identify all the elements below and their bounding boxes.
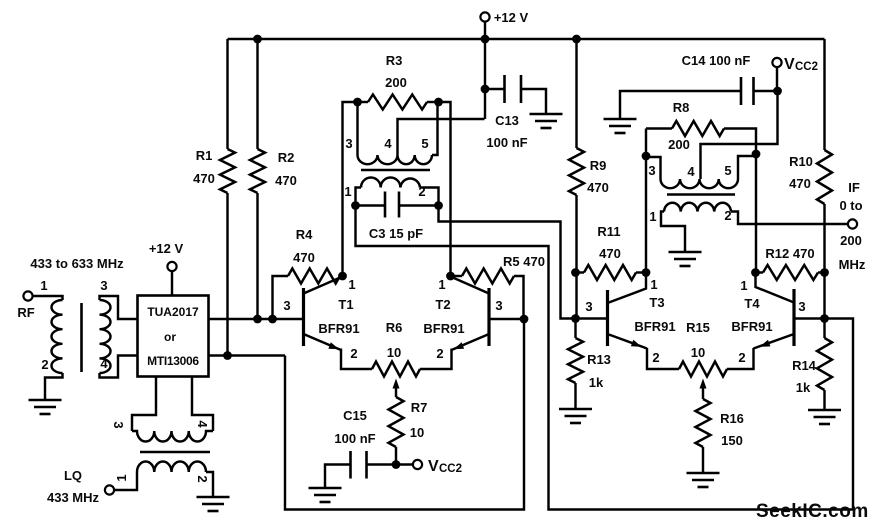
svg-text:R4: R4: [296, 227, 313, 242]
svg-text:SeekIC.com: SeekIC.com: [756, 501, 869, 522]
svg-text:C14 100 nF: C14 100 nF: [682, 53, 751, 68]
wire VCC2 to TR4 centre tap: [701, 91, 778, 179]
svg-text:3: 3: [111, 421, 126, 428]
+12V terminal: [480, 12, 489, 21]
svg-text:200: 200: [840, 233, 862, 248]
transistor T2 BFR91: [487, 288, 490, 346]
wire TR2 secondary left to C3: [356, 188, 362, 206]
svg-text:C3 15 pF: C3 15 pF: [369, 226, 423, 241]
node T3 collector junction: [642, 268, 651, 277]
svg-text:470: 470: [587, 180, 609, 195]
wire RF to TR1 primary: [33, 296, 63, 300]
svg-text:CC2: CC2: [795, 61, 818, 73]
resistor R6: [372, 362, 420, 377]
svg-text:1: 1: [740, 278, 747, 293]
svg-text:2: 2: [724, 208, 731, 223]
svg-text:4: 4: [195, 420, 210, 428]
wire TR3 pin2 to ground: [206, 472, 213, 497]
node T2 base junction: [520, 315, 529, 324]
svg-text:LQ: LQ: [64, 468, 82, 483]
svg-text:BFR91: BFR91: [423, 321, 464, 336]
node T2 collector junction: [446, 272, 455, 281]
wire TR2 secondary right to C3: [420, 188, 439, 206]
transistor T3 BFR91: [606, 290, 609, 346]
svg-text:C15: C15: [343, 408, 367, 423]
svg-text:2: 2: [652, 350, 659, 365]
svg-text:BFR91: BFR91: [731, 319, 772, 334]
wire R2 to T1 base bus: [256, 193, 258, 319]
svg-text:T4: T4: [744, 296, 760, 311]
ground R16: [687, 473, 720, 487]
svg-text:2: 2: [418, 184, 425, 199]
transformer TR1 core: [80, 303, 83, 372]
svg-text:0 to: 0 to: [839, 198, 862, 213]
wire R1 to LO bus: [226, 193, 228, 356]
resistor R16: [696, 399, 711, 447]
svg-text:T3: T3: [649, 295, 664, 310]
svg-text:1: 1: [348, 277, 355, 292]
svg-text:1: 1: [344, 184, 351, 199]
svg-text:2: 2: [195, 475, 210, 482]
ground TR4: [669, 252, 702, 266]
ground TR3: [197, 497, 230, 511]
ground TR1 primary: [29, 400, 62, 414]
transformer TR4 primary pin3 stub: [646, 157, 661, 179]
svg-text:MTI13006: MTI13006: [147, 354, 199, 368]
node junction rail/+12V: [481, 35, 490, 44]
wiper arrow R15: [700, 379, 707, 389]
svg-text:R14: R14: [792, 358, 817, 373]
wire U1 lower output bus: [209, 354, 286, 356]
wire +12V to C13: [484, 39, 486, 119]
wire R10 column: [823, 39, 825, 150]
VCC2 terminal bottom: [413, 460, 422, 469]
svg-text:10: 10: [691, 345, 705, 360]
svg-text:433 to 633 MHz: 433 to 633 MHz: [30, 256, 124, 271]
svg-text:R12 470: R12 470: [765, 246, 814, 261]
svg-text:C13: C13: [495, 113, 519, 128]
wire LQ terminal to TR3: [114, 472, 137, 490]
svg-text:V: V: [428, 458, 439, 475]
VCC2 terminal top: [772, 58, 781, 67]
svg-text:4: 4: [384, 136, 392, 151]
svg-text:3: 3: [283, 298, 290, 313]
ground C15: [309, 488, 342, 502]
svg-text:MHz: MHz: [839, 257, 866, 272]
wire TR1 secondary pin4 to U1: [100, 356, 138, 378]
svg-text:R7: R7: [411, 400, 428, 415]
node junction rail/R2: [253, 35, 262, 44]
svg-text:200: 200: [385, 75, 407, 90]
svg-text:T1: T1: [338, 297, 353, 312]
wire C3 left to bottom bus to T4 base: [356, 206, 854, 510]
svg-text:2: 2: [41, 357, 48, 372]
capacitor C13: [485, 88, 505, 90]
svg-text:R2: R2: [278, 150, 295, 165]
svg-text:150: 150: [721, 433, 743, 448]
node junction R4/base bus: [268, 315, 277, 324]
transformer TR2 secondary winding: [361, 177, 420, 187]
node junction R12 right: [820, 268, 829, 277]
wire C3 right to T3 base: [439, 206, 576, 319]
wire U1 to TR3 pin3: [132, 377, 156, 432]
svg-text:4: 4: [100, 356, 108, 371]
svg-text:R13: R13: [587, 352, 611, 367]
node junction C3 right: [434, 201, 443, 210]
node T3 base junction: [571, 314, 580, 323]
svg-text:1: 1: [40, 278, 47, 293]
wire R2 column: [256, 39, 258, 149]
svg-text:10: 10: [410, 425, 424, 440]
capacitor C15: [367, 463, 413, 465]
svg-text:470: 470: [293, 250, 315, 265]
wire U1 output to T1 base bus: [209, 318, 304, 320]
wire lower bus down and along bottom to T2 base: [285, 319, 524, 510]
ground R13: [559, 409, 592, 423]
svg-text:RF: RF: [17, 305, 34, 320]
resistor R11: [576, 271, 585, 273]
svg-text:200: 200: [668, 137, 690, 152]
capacitor C3: [356, 204, 386, 206]
node junction R11 left: [571, 268, 580, 277]
svg-text:100 nF: 100 nF: [486, 135, 527, 150]
svg-text:4: 4: [687, 164, 695, 179]
svg-text:or: or: [164, 330, 176, 344]
svg-text:V: V: [784, 56, 795, 73]
node T4 collector junction: [751, 268, 760, 277]
transformer TR3 top winding: [132, 431, 213, 442]
svg-text:T2: T2: [435, 297, 450, 312]
svg-text:2: 2: [350, 346, 357, 361]
node junction R8 right: [752, 150, 761, 159]
svg-text:1: 1: [649, 209, 656, 224]
+12V terminal above U1: [167, 262, 176, 271]
resistor R3: [358, 101, 369, 103]
resistor R5: [451, 275, 463, 277]
node junction R7/C15/VCC2: [392, 460, 401, 469]
transformer TR2 centre tap pin4: [398, 119, 485, 155]
svg-text:1: 1: [650, 277, 657, 292]
resistor R10: [817, 150, 832, 204]
svg-text:3: 3: [648, 163, 655, 178]
wire R3 right to T2 collector: [439, 102, 451, 276]
svg-text:R6: R6: [386, 320, 403, 335]
resistor R7: [389, 397, 404, 447]
transistor T1 BFR91: [302, 288, 305, 346]
resistor R12: [756, 271, 764, 273]
svg-text:+12 V: +12 V: [149, 241, 184, 256]
RF input terminal: [23, 291, 32, 300]
wire TR1 primary to ground: [45, 373, 63, 400]
svg-text:433 MHz: 433 MHz: [47, 490, 100, 505]
svg-text:1: 1: [114, 474, 129, 481]
svg-text:100 nF: 100 nF: [334, 431, 375, 446]
svg-text:BFR91: BFR91: [634, 319, 675, 334]
wiper arrow R6: [393, 379, 400, 389]
svg-text:3: 3: [798, 299, 805, 314]
resistor R13: [574, 319, 576, 339]
wire +12V top supply rail: [228, 38, 825, 40]
resistor R2: [250, 149, 265, 193]
ground C14: [604, 119, 637, 133]
node junction R3 left: [353, 98, 362, 107]
transistor T4 BFR91: [792, 289, 795, 346]
wire R8 left to T3 collector: [645, 156, 647, 273]
transformer TR1 secondary winding: [100, 300, 111, 373]
svg-text:CC2: CC2: [439, 463, 462, 475]
resistor R4: [273, 276, 289, 319]
node junction R3 right: [434, 98, 443, 107]
svg-text:3: 3: [495, 298, 502, 313]
transformer TR2 primary winding: [358, 155, 433, 164]
transformer TR3 core: [140, 451, 210, 454]
node junction R2/base bus: [253, 315, 262, 324]
resistor R14: [823, 319, 825, 339]
node junction rail/R9: [572, 35, 581, 44]
svg-text:2: 2: [738, 350, 745, 365]
svg-text:R9: R9: [590, 158, 607, 173]
wire R10 to R12: [823, 204, 825, 319]
transformer TR2 primary pin3 stub: [356, 102, 358, 155]
transformer TR1 primary winding: [51, 300, 62, 373]
svg-text:5: 5: [421, 136, 428, 151]
svg-text:R15: R15: [686, 320, 710, 335]
node T1 collector junction: [338, 272, 347, 281]
svg-text:R16: R16: [720, 411, 744, 426]
ground C13: [530, 114, 563, 128]
svg-text:1k: 1k: [589, 375, 604, 390]
resistor R15: [679, 362, 727, 377]
node junction R8 left: [642, 152, 651, 161]
svg-text:R1: R1: [196, 148, 213, 163]
transformer TR2 pin5 stub: [432, 102, 438, 155]
node junction C13/+12V column: [481, 85, 490, 94]
svg-text:R5 470: R5 470: [503, 254, 545, 269]
svg-text:10: 10: [387, 345, 401, 360]
svg-text:BFR91: BFR91: [318, 321, 359, 336]
svg-text:470: 470: [599, 246, 621, 261]
node junction C3 left: [351, 201, 360, 210]
svg-text:IF: IF: [848, 180, 860, 195]
svg-text:R10: R10: [789, 154, 813, 169]
svg-text:R3: R3: [386, 53, 403, 68]
svg-text:3: 3: [345, 136, 352, 151]
svg-text:5: 5: [724, 163, 731, 178]
node junction R1/lower bus: [223, 351, 232, 360]
resistor R1: [220, 149, 235, 193]
resistor R8: [646, 127, 672, 129]
svg-text:+12 V: +12 V: [494, 10, 529, 25]
wire TR4 pin2 to IF output: [731, 212, 848, 225]
ground R14: [808, 410, 841, 424]
LQ input terminal: [105, 485, 114, 494]
capacitor C14: [754, 90, 778, 92]
svg-text:470: 470: [275, 173, 297, 188]
wire R1 column: [226, 39, 228, 149]
svg-text:R8: R8: [673, 100, 690, 115]
svg-text:1k: 1k: [796, 380, 811, 395]
IF output terminal: [848, 219, 857, 228]
wire R9 to R11: [575, 195, 577, 319]
wire T2 base: [489, 318, 524, 320]
svg-text:3: 3: [585, 299, 592, 314]
svg-text:1: 1: [438, 277, 445, 292]
svg-text:2: 2: [436, 346, 443, 361]
svg-text:470: 470: [193, 171, 215, 186]
transformer TR4 secondary winding: [664, 203, 731, 212]
node junction C14/VCC2: [773, 87, 782, 96]
node T4 base junction: [820, 314, 829, 323]
wire TR4 pin1 to ground: [661, 212, 685, 253]
transformer TR4 core: [667, 193, 735, 196]
svg-text:R11: R11: [597, 224, 620, 239]
transformer TR3 bottom winding: [137, 461, 206, 472]
wire R9 column: [575, 39, 577, 148]
wire R8 right to T4 collector: [755, 154, 757, 273]
svg-text:3: 3: [100, 278, 107, 293]
wire TR1 secondary to U1 input: [100, 296, 138, 319]
transformer TR4 primary winding: [661, 179, 739, 188]
transformer TR2 core: [361, 169, 430, 172]
transformer TR4 pin5 stub: [738, 156, 756, 179]
wire U1 to TR3 pin4: [192, 377, 213, 432]
op-amp U1 TUA2017/MTI13006 mixer IC: [138, 296, 209, 377]
svg-text:TUA2017: TUA2017: [147, 305, 199, 319]
resistor R9: [569, 148, 584, 195]
svg-text:470: 470: [789, 176, 811, 191]
wire R3 left to T1 collector: [343, 102, 358, 276]
